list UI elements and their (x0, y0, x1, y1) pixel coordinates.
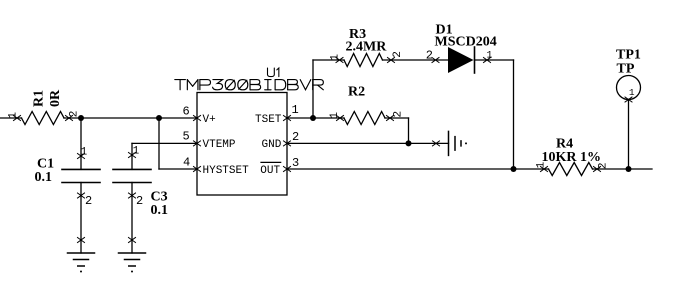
pin marker TP1 pin 1 (625, 97, 632, 102)
svg-text:2.4MR: 2.4MR (346, 40, 388, 55)
svg-text:TP: TP (617, 61, 635, 76)
node V+ branch (156, 115, 162, 121)
resistor R1 (22, 112, 65, 125)
wire TP1 down (628, 100, 630, 170)
wire corner down to C3 (131, 143, 133, 169)
svg-text:MSCD204: MSCD204 (435, 35, 497, 50)
pin marker R1 pin 2 (66, 116, 73, 121)
pin marker R4 pin 2 (594, 167, 601, 172)
wire C1 to ground (80, 183, 82, 254)
svg-text:0.1: 0.1 (35, 170, 53, 185)
svg-text:3: 3 (292, 156, 299, 170)
pin marker U1 pin 5 (194, 141, 201, 146)
svg-text:5: 5 (183, 130, 190, 144)
pin marker U1 pin 2 (284, 141, 291, 146)
wire R3 to D1 (383, 59, 449, 61)
svg-text:V+: V+ (203, 114, 216, 126)
node D1/OUT (511, 166, 517, 172)
svg-text:2: 2 (85, 194, 92, 208)
svg-text:1: 1 (487, 51, 493, 62)
pin marker D1 pin 1 (484, 58, 491, 63)
node R2/GND (406, 140, 412, 146)
wire U1 pin 5 to C3 corner (132, 142, 197, 144)
wire node up to R3 branch (312, 60, 314, 118)
wire U1 pin 1 to node (287, 117, 313, 119)
wire D1 to corner (475, 59, 514, 61)
svg-text:VTEMP: VTEMP (203, 139, 236, 151)
wire R4 to node (593, 168, 653, 170)
svg-text:GND: GND (262, 139, 282, 151)
svg-text:1: 1 (629, 87, 635, 98)
wire U1 pin 2 to ground (287, 142, 449, 144)
pin marker C3 pin 1 (129, 153, 136, 158)
svg-text:HYSTSET: HYSTSET (203, 165, 250, 177)
node TSET (310, 115, 316, 121)
pin marker R2 pin 2 (387, 116, 394, 121)
svg-text:6: 6 (183, 105, 190, 119)
wire U1 pin 3 OUT line (287, 168, 549, 170)
node TP1 (626, 166, 632, 172)
wire R2 to GND line (385, 117, 409, 119)
svg-text:10KR 1%: 10KR 1% (542, 150, 602, 165)
pin marker R1 pin 1 (14, 116, 21, 121)
diode D1 (448, 47, 474, 73)
node after R1 (78, 115, 84, 121)
ground (C3) (119, 253, 146, 266)
svg-text:0R: 0R (48, 89, 63, 107)
pin marker R3 pin 1 (336, 58, 343, 63)
svg-text:2: 2 (426, 48, 433, 62)
svg-text:R1: R1 (31, 90, 46, 107)
pin marker R4 pin 1 (541, 167, 548, 172)
wire to R3 (313, 59, 344, 61)
wire left input to R1 (0, 117, 22, 119)
resistor R3 (344, 54, 383, 67)
wire to U1 pin 4 (159, 168, 197, 170)
wire R1 to U1 pin 6 (64, 117, 197, 119)
svg-text:1: 1 (81, 146, 88, 158)
wire node to C1 (80, 118, 82, 169)
pin marker U1 pin 1 (284, 116, 291, 121)
ground (C1) (68, 253, 95, 266)
pin marker ground GND pin (433, 141, 440, 146)
op-amp U1 box (197, 93, 287, 196)
svg-text:1: 1 (329, 112, 341, 119)
svg-text:4: 4 (183, 156, 190, 170)
pin marker U1 pin 6 (194, 116, 201, 121)
pin marker U1 pin 4 (194, 167, 201, 172)
pin marker D1 pin 2 (432, 58, 439, 63)
resistor R4 (549, 163, 593, 176)
wire node down to HYSTSET row (158, 118, 160, 169)
pin marker R3 pin 2 (388, 58, 395, 63)
ground (GND pin, rotated) (449, 131, 462, 155)
resistor R2 (313, 117, 344, 119)
svg-text:1: 1 (292, 103, 299, 117)
svg-text:TP1: TP1 (616, 48, 641, 63)
svg-text:2: 2 (136, 194, 143, 208)
svg-text:1: 1 (133, 146, 140, 158)
pin marker C3 pin 2 (129, 193, 136, 198)
svg-text:2: 2 (392, 51, 404, 58)
pin marker U1 pin 3 (284, 167, 291, 172)
svg-text:1: 1 (330, 54, 342, 61)
svg-text:0.1: 0.1 (151, 203, 169, 218)
svg-text:2: 2 (69, 111, 81, 118)
OUT overline (261, 161, 281, 163)
U1 refdes (268, 68, 279, 77)
pin marker C1 pin 2 (78, 193, 85, 198)
pin marker C1 pin 1 (78, 154, 85, 159)
svg-text:OUT: OUT (260, 165, 280, 177)
test point TP1 circle (617, 76, 641, 100)
U1 value TMP300BIDBVR (175, 80, 324, 90)
svg-text:R2: R2 (348, 85, 365, 100)
svg-text:2: 2 (292, 130, 299, 144)
wire C3 to ground (131, 183, 133, 254)
pin marker ground C3 (129, 238, 136, 243)
svg-text:TSET: TSET (255, 114, 282, 126)
svg-text:1: 1 (8, 112, 20, 119)
wire corner down to OUT line (513, 60, 515, 169)
svg-text:2: 2 (393, 111, 405, 118)
pin marker ground C1 (78, 238, 85, 243)
capacitor C1 (62, 169, 100, 182)
pin marker R2 pin 1 (337, 116, 344, 121)
capacitor C3 (113, 169, 151, 182)
